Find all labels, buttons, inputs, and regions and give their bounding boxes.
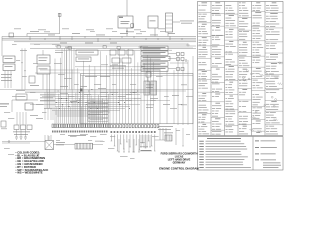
svg-text:• WS = WEISS/WHITE: • WS = WEISS/WHITE (16, 171, 43, 175)
svg-text:GERMANY: GERMANY (173, 162, 186, 165)
svg-text:ENGINE CONTROL DIAGRAM: ENGINE CONTROL DIAGRAM (159, 166, 199, 170)
